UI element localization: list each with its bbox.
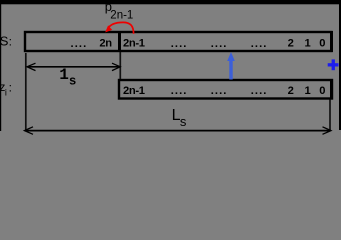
svg-text:....: .... xyxy=(171,38,188,50)
svg-text:....: .... xyxy=(211,38,228,50)
svg-text:2: 2 xyxy=(288,37,294,49)
svg-text::: : xyxy=(9,81,12,95)
svg-text::: : xyxy=(9,34,12,48)
svg-text:0: 0 xyxy=(319,37,325,49)
svg-text:i: i xyxy=(5,87,7,97)
svg-text:1: 1 xyxy=(59,66,69,84)
svg-text:....: .... xyxy=(251,85,268,97)
svg-text:2n: 2n xyxy=(99,37,112,49)
svg-text:1: 1 xyxy=(305,37,311,49)
svg-text:s: s xyxy=(69,74,77,88)
svg-text:s: s xyxy=(180,114,187,129)
svg-text:....: .... xyxy=(71,38,88,50)
svg-text:....: .... xyxy=(251,38,268,50)
svg-text:2n-1: 2n-1 xyxy=(123,37,145,49)
svg-text:1: 1 xyxy=(305,85,311,97)
svg-text:2n-1: 2n-1 xyxy=(123,85,145,97)
svg-text:0: 0 xyxy=(319,85,325,97)
svg-text:....: .... xyxy=(211,85,228,97)
svg-text:S: S xyxy=(0,33,9,48)
svg-text:2: 2 xyxy=(288,85,294,97)
svg-text:....: .... xyxy=(171,85,188,97)
svg-text:2n-1: 2n-1 xyxy=(110,9,133,21)
